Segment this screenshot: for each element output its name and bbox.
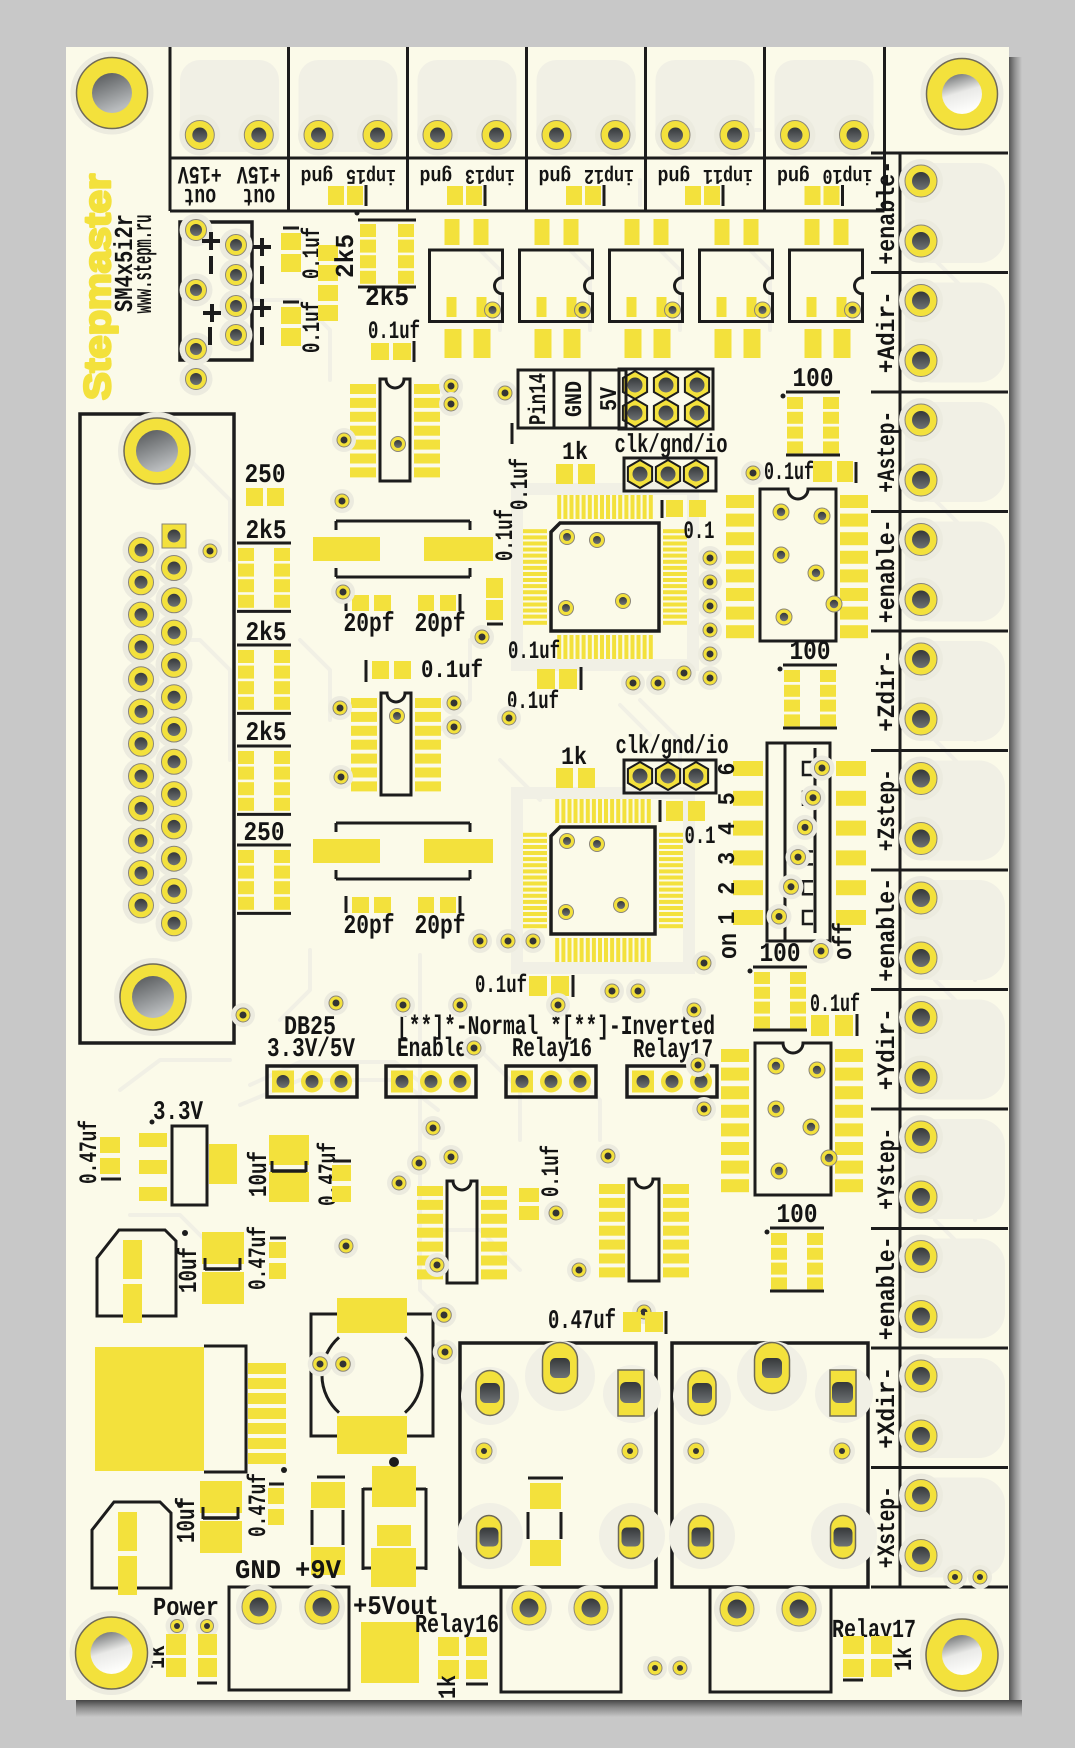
svg-text:5: 5: [715, 792, 742, 805]
svg-text:20pf: 20pf: [415, 610, 466, 640]
svg-text:1k: 1k: [562, 438, 588, 467]
svg-text:1k: 1k: [434, 1675, 463, 1699]
svg-text:0.1uf: 0.1uf: [421, 656, 483, 685]
svg-text:6: 6: [715, 763, 742, 776]
svg-text:Enable: Enable: [397, 1035, 467, 1065]
svg-text:Relay16: Relay16: [415, 1610, 499, 1640]
svg-text:+enable-: +enable-: [873, 161, 902, 265]
svg-text:Relay16: Relay16: [512, 1035, 592, 1065]
svg-text:inp11: inp11: [703, 163, 753, 186]
svg-text:0.1uf: 0.1uf: [506, 458, 535, 510]
svg-text:www.stepm.ru: www.stepm.ru: [129, 215, 159, 314]
svg-text:Pin14: Pin14: [526, 373, 553, 425]
svg-text:0.1uf: 0.1uf: [508, 637, 560, 666]
svg-text:1k: 1k: [561, 743, 587, 772]
svg-text:0.1uf: 0.1uf: [368, 317, 420, 346]
svg-text:GND: GND: [562, 381, 589, 417]
svg-text:0.47uf: 0.47uf: [244, 1473, 273, 1537]
svg-text:3.3V/5V: 3.3V/5V: [267, 1035, 356, 1065]
svg-text:off: off: [829, 922, 859, 960]
svg-text:+Zdir-: +Zdir-: [873, 650, 902, 732]
svg-text:inp13: inp13: [465, 163, 515, 186]
svg-text:0.1uf: 0.1uf: [475, 971, 527, 1000]
svg-text:3: 3: [715, 852, 742, 865]
svg-text:+enable-: +enable-: [873, 878, 902, 982]
svg-text:20pf: 20pf: [415, 912, 466, 942]
svg-text:+Xstep-: +Xstep-: [873, 1486, 902, 1568]
svg-text:+Xdir-: +Xdir-: [873, 1367, 902, 1449]
svg-text:GND: GND: [235, 1557, 281, 1587]
svg-text:0.47uf: 0.47uf: [548, 1307, 616, 1337]
svg-text:0.47uf: 0.47uf: [75, 1120, 104, 1184]
svg-text:10uf: 10uf: [174, 1247, 204, 1293]
svg-text:gnd: gnd: [658, 163, 691, 186]
svg-text:20pf: 20pf: [344, 610, 395, 640]
svg-text:0.1uf: 0.1uf: [764, 458, 814, 487]
svg-text:+9V: +9V: [295, 1557, 342, 1587]
svg-text:2: 2: [715, 882, 742, 895]
svg-text:gnd: gnd: [301, 163, 334, 186]
svg-text:+Ydir-: +Ydir-: [873, 1008, 902, 1090]
svg-text:out: out: [242, 181, 275, 210]
svg-text:0.1uf: 0.1uf: [537, 1145, 566, 1197]
svg-text:on: on: [714, 933, 744, 959]
svg-text:20pf: 20pf: [344, 912, 395, 942]
svg-text:clk/gnd/io: clk/gnd/io: [615, 430, 728, 460]
svg-text:2k5: 2k5: [365, 284, 409, 314]
svg-text:inp10: inp10: [823, 163, 873, 186]
svg-text:5V: 5V: [597, 387, 624, 411]
svg-text:clk/gnd/io: clk/gnd/io: [616, 731, 729, 761]
svg-text:inp15: inp15: [346, 163, 396, 186]
svg-text:1: 1: [715, 912, 742, 925]
svg-text:0.1uf: 0.1uf: [491, 509, 520, 561]
svg-text:inp12: inp12: [584, 163, 634, 186]
svg-text:+Ystep-: +Ystep-: [873, 1128, 902, 1210]
svg-text:gnd: gnd: [777, 163, 810, 186]
svg-text:1k: 1k: [890, 1647, 919, 1671]
svg-text:3.3V: 3.3V: [153, 1098, 204, 1128]
svg-text:gnd: gnd: [420, 163, 453, 186]
svg-text:out: out: [183, 181, 216, 210]
svg-text:250: 250: [245, 461, 286, 491]
svg-text:0.1: 0.1: [684, 517, 715, 546]
svg-text:0.1: 0.1: [685, 822, 716, 851]
svg-text:+Zstep-: +Zstep-: [873, 769, 902, 851]
svg-text:4: 4: [715, 822, 742, 835]
svg-text:+enable-: +enable-: [873, 519, 902, 623]
svg-text:+enable-: +enable-: [873, 1236, 902, 1340]
svg-text:2k5: 2k5: [331, 234, 361, 278]
svg-text:0.47uf: 0.47uf: [244, 1226, 273, 1290]
svg-text:0.1uf: 0.1uf: [810, 990, 860, 1019]
svg-text:+Adir-: +Adir-: [873, 291, 902, 373]
svg-text:10uf: 10uf: [172, 1497, 202, 1543]
svg-text:+Astep-: +Astep-: [873, 411, 902, 493]
svg-text:gnd: gnd: [539, 163, 572, 186]
